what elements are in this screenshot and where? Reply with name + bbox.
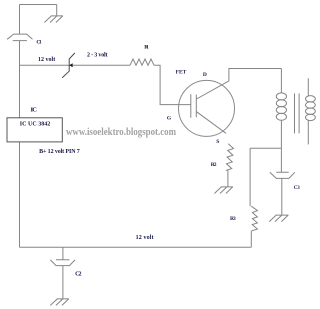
svg-text:12 volt: 12 volt bbox=[136, 235, 154, 241]
svg-text:C2: C2 bbox=[75, 271, 81, 277]
svg-text:S: S bbox=[216, 139, 219, 145]
svg-text:C3: C3 bbox=[294, 186, 300, 191]
svg-text:B+ 12 volt PIN 7: B+ 12 volt PIN 7 bbox=[39, 149, 80, 155]
svg-text:IC: IC bbox=[31, 107, 38, 114]
svg-text:R2: R2 bbox=[211, 162, 217, 168]
svg-text:R1: R1 bbox=[144, 45, 149, 51]
svg-text:12 volt: 12 volt bbox=[38, 57, 55, 63]
svg-text:www.isoelektro.blogspot.com: www.isoelektro.blogspot.com bbox=[66, 126, 176, 138]
svg-text:C1: C1 bbox=[36, 40, 41, 46]
svg-text:IC UC 3842: IC UC 3842 bbox=[20, 122, 51, 128]
svg-text:G: G bbox=[167, 115, 172, 121]
svg-text:D: D bbox=[203, 72, 207, 78]
svg-text:R3: R3 bbox=[230, 216, 236, 222]
svg-text:FET: FET bbox=[176, 70, 187, 76]
svg-text:2 - 3 volt: 2 - 3 volt bbox=[87, 52, 108, 58]
